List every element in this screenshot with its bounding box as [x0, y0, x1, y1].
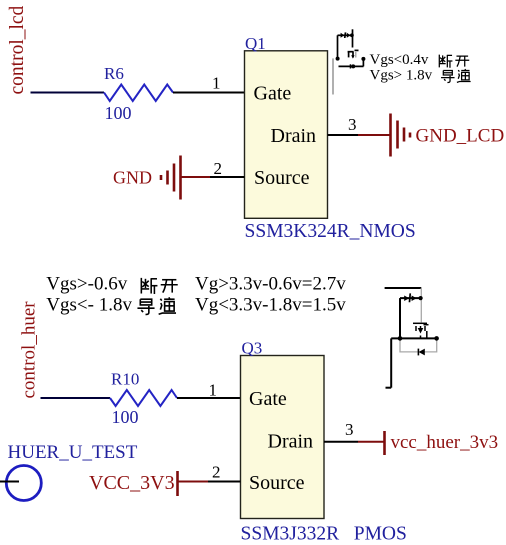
wire VCC_3V3 to Q3 source (pin 2)	[179, 481, 209, 483]
power bar VCC_3V3	[176, 471, 179, 496]
svg-text:Vg>3.3v-0.6v=2.7v: Vg>3.3v-0.6v=2.7v	[195, 274, 346, 295]
power bar vcc_huer_3v3	[383, 431, 386, 455]
svg-text:vcc_huer_3v3: vcc_huer_3v3	[391, 432, 499, 453]
annotation sketch PMOS with body diode	[385, 288, 438, 388]
svg-text:Vgs> 1.8v: Vgs> 1.8v	[370, 68, 433, 84]
svg-text:Gate: Gate	[249, 388, 287, 410]
svg-text:R6: R6	[104, 64, 124, 83]
svg-text:Q3: Q3	[242, 339, 263, 358]
svg-text:Vgs<0.4v: Vgs<0.4v	[370, 52, 429, 68]
svg-text:VCC_3V3: VCC_3V3	[89, 472, 175, 494]
wire R6 to Q1 gate (pin 1)	[173, 92, 245, 94]
test point circle	[6, 466, 41, 501]
svg-text:Vgs>-0.6v: Vgs>-0.6v	[46, 274, 127, 295]
svg-text:Vgs<- 1.8v: Vgs<- 1.8v	[46, 295, 132, 316]
wire control_huer to R10	[41, 397, 111, 399]
svg-text:GND: GND	[113, 168, 152, 188]
svg-text:1: 1	[209, 381, 218, 400]
svg-text:R10: R10	[111, 370, 139, 389]
svg-text:2: 2	[212, 463, 221, 482]
svg-text:Source: Source	[254, 167, 310, 189]
svg-text:HUER_U_TEST: HUER_U_TEST	[8, 442, 138, 463]
svg-text:3: 3	[345, 420, 354, 439]
svg-text:SSM3J332R PMOS: SSM3J332R PMOS	[241, 524, 407, 545]
resistor R10	[110, 390, 177, 406]
svg-text:GND_LCD: GND_LCD	[416, 126, 505, 147]
wire control_lcd to R6	[31, 92, 105, 94]
annotation sketch NMOS with body diode	[338, 29, 364, 66]
ground symbol GND_LCD	[391, 114, 411, 157]
transistor Q1 body	[245, 51, 328, 219]
wire stub into test point	[0, 481, 19, 483]
svg-text:2: 2	[214, 159, 223, 178]
svg-text:3: 3	[348, 115, 357, 134]
svg-text:Source: Source	[249, 472, 305, 494]
resistor R6	[104, 85, 173, 102]
svg-text:100: 100	[112, 407, 139, 427]
svg-text:control_huer: control_huer	[19, 301, 40, 399]
svg-text:Drain: Drain	[271, 125, 317, 147]
svg-text:100: 100	[105, 103, 132, 123]
svg-text:Q1: Q1	[245, 34, 266, 53]
sketch grey return path	[400, 288, 437, 352]
svg-text:SSM3K324R_NMOS: SSM3K324R_NMOS	[245, 221, 416, 242]
wire Q1 drain (pin 3)	[328, 134, 359, 136]
svg-text:Drain: Drain	[268, 431, 314, 453]
ground symbol GND	[161, 156, 181, 200]
annotation sketch stub line	[332, 58, 334, 94]
transistor Q3 body	[241, 356, 325, 519]
wire Q3 drain (pin 3)	[324, 441, 358, 443]
svg-text:control_lcd: control_lcd	[7, 5, 28, 94]
wire GND to Q1 source (pin 2)	[210, 176, 245, 178]
svg-text:1: 1	[212, 74, 221, 93]
svg-text:Vg<3.3v-1.8v=1.5v: Vg<3.3v-1.8v=1.5v	[195, 295, 346, 316]
wire R10 to Q3 gate (pin 1)	[177, 397, 241, 399]
svg-text:Gate: Gate	[254, 83, 292, 105]
